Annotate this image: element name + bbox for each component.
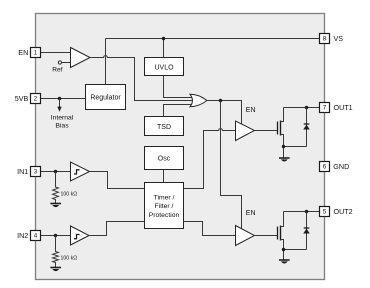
svg-text:Internal: Internal <box>51 114 74 121</box>
svg-text:100 kΩ: 100 kΩ <box>61 192 78 198</box>
svg-text:Filter /: Filter / <box>155 203 174 210</box>
svg-text:100 kΩ: 100 kΩ <box>61 255 78 261</box>
svg-text:5VB: 5VB <box>15 94 29 103</box>
label GND pin <box>333 162 349 171</box>
node IN1 pulldown junction <box>54 170 58 174</box>
wire Ref to comparator inverting input <box>62 62 71 64</box>
wire driver 1 output to Q1 gate <box>255 130 278 132</box>
wire buffer1 output to timer input 1 <box>90 172 145 189</box>
svg-text:3: 3 <box>34 169 38 176</box>
wire timer output 2 to driver 2 input <box>184 222 236 236</box>
wire pin 3 IN1 to schmitt buffer <box>41 171 71 173</box>
wire Osc to timer <box>163 170 165 183</box>
pin 7 <box>320 103 330 113</box>
ground (R1) <box>50 204 61 208</box>
label Ref <box>52 67 62 74</box>
svg-text:IN2: IN2 <box>17 231 28 240</box>
svg-text:OUT2: OUT2 <box>334 207 353 216</box>
svg-text:7: 7 <box>323 105 327 112</box>
wire pin 4 IN2 to schmitt buffer <box>41 235 71 237</box>
wire Q2 drain to pin 5 rail <box>281 212 320 227</box>
wire UVLO output to OR gate top input <box>164 76 193 98</box>
label EN (driver 2) <box>246 210 256 217</box>
wire buffer2 output to timer input 2 <box>89 222 145 236</box>
transistor Q1 gate bar <box>277 122 279 135</box>
wire Q1 source to ground and diode <box>281 135 307 158</box>
IC body outline <box>36 14 325 280</box>
pin 4 <box>31 231 41 241</box>
diode D2 <box>303 212 310 250</box>
label 100 kOhm (R1) <box>61 192 78 198</box>
pin 2 <box>31 94 41 104</box>
regulator block <box>86 85 126 110</box>
svg-text:IN1: IN1 <box>17 167 28 176</box>
pin 8 <box>320 34 330 44</box>
wire EN net down to driver 2 enable <box>221 101 242 229</box>
label OUT2 pin <box>334 207 353 216</box>
wire VS tap down to UVLO top <box>163 39 165 58</box>
wire pin 1 EN to comparator input <box>41 52 71 54</box>
resistor R2 100k pulldown <box>53 236 59 268</box>
diode D1 <box>303 108 310 147</box>
svg-text:Timer /: Timer / <box>154 194 175 201</box>
svg-text:OUT1: OUT1 <box>334 103 353 112</box>
label Internal Bias <box>51 114 74 129</box>
svg-text:1: 1 <box>34 50 38 57</box>
svg-text:8: 8 <box>323 36 327 43</box>
schmitt buffer IN2 <box>71 226 90 245</box>
schmitt buffer IN1 <box>71 162 90 181</box>
label 100 kOhm (R2) <box>61 255 78 261</box>
transistor Q2 channel bar <box>280 226 282 241</box>
driver 1 buffer <box>236 121 255 141</box>
svg-text:EN: EN <box>246 107 256 114</box>
label 5VB pin <box>15 94 29 103</box>
Ref terminal circle <box>58 61 61 64</box>
svg-text:UVLO: UVLO <box>154 64 174 71</box>
node drain-diode junction OUT1 <box>305 106 309 110</box>
timer/filter/protection block <box>145 183 184 229</box>
pin 1 <box>31 48 41 58</box>
wire pin 2 5VB to regulator <box>41 98 86 100</box>
node Q1 source junction <box>282 145 286 149</box>
label IN2 pin <box>17 231 28 240</box>
wire OR output to driver 1 enable <box>207 101 242 126</box>
node EN net junction <box>219 99 223 103</box>
or-gate G1 <box>190 94 207 106</box>
svg-text:Osc: Osc <box>158 156 171 163</box>
node Q2 source junction <box>282 248 286 252</box>
label EN (driver 1) <box>246 107 256 114</box>
svg-text:TSD: TSD <box>157 124 171 131</box>
wire VS rail down to regulator top <box>105 39 107 85</box>
node VS-UVLO junction <box>162 37 166 41</box>
wire TSD output to OR gate bottom input <box>164 105 193 117</box>
wire Q1 drain to pin 7 rail <box>281 108 320 122</box>
node drain-diode junction OUT2 <box>305 210 309 214</box>
UVLO block <box>145 58 184 76</box>
node internal-bias tap junction <box>58 97 62 101</box>
svg-text:Protection: Protection <box>149 212 180 219</box>
driver 2 buffer <box>236 226 255 246</box>
svg-text:5: 5 <box>323 209 327 216</box>
transistor Q1 channel bar <box>280 121 282 136</box>
label IN1 pin <box>17 167 28 176</box>
Osc block <box>145 147 184 170</box>
wire comparator output with hop over VS drop, to OR gate middle input <box>90 56 194 101</box>
label OUT1 pin <box>334 103 353 112</box>
label VS pin <box>334 34 344 43</box>
ground (R2) <box>50 268 61 272</box>
svg-text:EN: EN <box>18 48 28 57</box>
TSD block <box>145 117 184 136</box>
node IN2 pulldown junction <box>54 234 58 238</box>
svg-text:4: 4 <box>34 233 38 240</box>
svg-text:Regulator: Regulator <box>90 95 121 102</box>
pin 5 <box>320 207 330 217</box>
wire timer output 1 up to driver 1 input (hop over EN net) <box>184 129 236 189</box>
transistor Q2 gate bar <box>277 227 279 240</box>
wire Q2 source to ground and diode <box>281 240 307 260</box>
svg-text:Bias: Bias <box>55 123 69 130</box>
wire driver 2 output to Q2 gate <box>255 235 278 237</box>
resistor R1 100k pulldown <box>53 172 59 204</box>
ground (Q1 source) <box>279 158 290 162</box>
svg-text:6: 6 <box>323 164 327 171</box>
svg-text:EN: EN <box>246 210 256 217</box>
svg-text:Ref: Ref <box>52 67 62 74</box>
comparator U1 (EN comparator) <box>71 48 91 68</box>
pin 6 <box>320 162 330 172</box>
pin 3 <box>31 167 41 177</box>
label EN pin <box>18 48 28 57</box>
ground (Q2 source) <box>279 260 290 264</box>
internal bias arrow <box>57 99 61 112</box>
svg-text:VS: VS <box>334 34 344 43</box>
wire VS rail from regulator top to pin 8 <box>106 38 320 40</box>
svg-text:GND: GND <box>333 162 349 171</box>
svg-text:2: 2 <box>34 96 38 103</box>
